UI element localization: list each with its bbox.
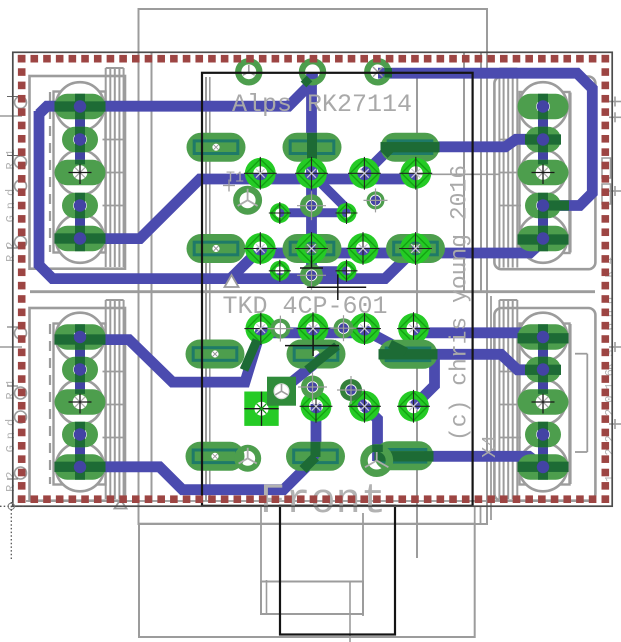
svg-text:(c) chris young 2016: (c) chris young 2016 (447, 165, 473, 441)
svg-text:R2 Gnd R1: R2 Gnd R1 (4, 373, 18, 492)
svg-text:Alps RK27114: Alps RK27114 (232, 90, 412, 119)
svg-text:X4: X4 (479, 435, 501, 458)
svg-text:TKD 4CP-601: TKD 4CP-601 (223, 292, 388, 321)
svg-text:R2 Gnd R1: R2 Gnd R1 (4, 143, 18, 262)
